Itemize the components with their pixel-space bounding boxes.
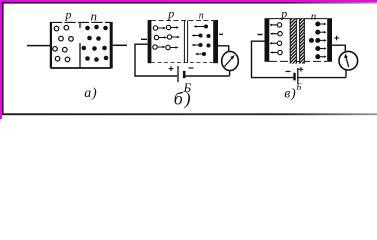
electrons moving right (fig v) (316, 22, 320, 26)
wire right of box a (112, 44, 127, 46)
electrons in n region (fig a) (85, 26, 90, 31)
svg-text:p: p (65, 8, 72, 22)
plus sign right (fig v) (334, 36, 339, 41)
svg-text:а): а) (84, 86, 97, 101)
junction line a (79, 22, 81, 28)
wire left of box a (27, 45, 50, 47)
minus sign left (fig b) (141, 38, 147, 40)
minus sign right (fig b) (219, 33, 223, 35)
minus sign left (fig v) (258, 34, 263, 36)
svg-text:n: n (311, 11, 317, 23)
electrode left (fig v) (265, 18, 270, 62)
svg-text:б): б) (174, 89, 193, 110)
wire meter to bottom (fig b) (229, 70, 231, 76)
battery plate plus (fig b) (177, 66, 179, 82)
svg-text:в): в) (284, 87, 296, 102)
svg-text:n: n (199, 11, 204, 22)
border frame black left (2, 2, 4, 114)
electrons moving left (fig b) (204, 24, 208, 28)
holes in p region (fig a) (54, 26, 59, 31)
svg-text:n: n (91, 9, 98, 24)
holes moving right (fig b) (153, 26, 157, 30)
battery plus sign (fig b) (169, 66, 174, 71)
electrode right (fig v) (327, 18, 332, 62)
wire meter to bottom (fig v) (345, 70, 347, 78)
box v outline (269, 18, 327, 20)
wire to meter (fig b) (218, 46, 229, 52)
border frame magenta top (0, 0, 377, 2)
battery minus sign (fig v) (286, 71, 291, 73)
junction double line (fig b) (183, 21, 185, 64)
meter (fig b) (222, 51, 239, 70)
wire stub left (fig b) (135, 44, 177, 76)
border frame magenta left (0, 0, 2, 119)
border frame black bottom (2, 113, 377, 115)
meter needle (fig v) (344, 54, 349, 67)
battery plate minus (fig v) (293, 73, 295, 81)
holes moving left (fig v) (277, 23, 281, 27)
wire stub left (fig v) (252, 41, 294, 77)
battery plate plus (fig v) (297, 68, 299, 84)
svg-text:p: p (280, 6, 287, 20)
box a outline (51, 21, 111, 23)
meter (fig v) (339, 51, 358, 70)
electrode left (fig b) (148, 20, 152, 63)
hole arrows (fig b) (158, 27, 164, 29)
battery minus sign (fig b) (189, 67, 194, 69)
battery plus sign (fig v) (299, 67, 304, 72)
electrode right (fig b) (213, 20, 218, 63)
meter needle (fig b) (225, 55, 235, 67)
svg-text:p: p (167, 7, 174, 21)
depletion layer hatched band 2 (fig v) (300, 19, 305, 64)
depletion layer hatched band 1 (fig v) (290, 19, 296, 64)
battery plate minus (fig b) (183, 71, 186, 78)
wire to meter (fig v) (332, 45, 345, 52)
box b outline (151, 20, 213, 22)
border frame black top (2, 2, 377, 4)
